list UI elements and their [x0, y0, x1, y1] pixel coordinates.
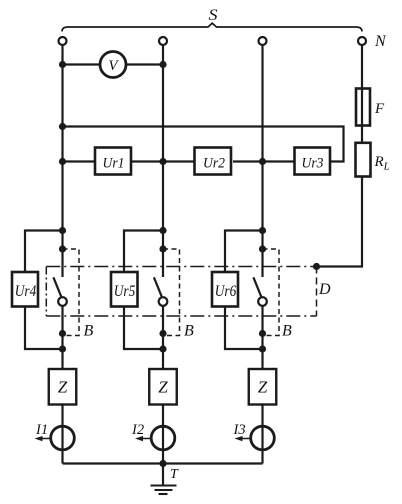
relay Ur6: [212, 272, 238, 307]
current source I2: [151, 426, 175, 450]
relay Ur4: [12, 272, 38, 307]
node L2-voltmeter: [159, 61, 166, 68]
node L1-voltmeter: [59, 61, 66, 68]
wire Ur1-Ur2: [132, 160, 196, 162]
arrow I1: [35, 436, 51, 441]
impedance Z1: [49, 369, 77, 405]
switch B1 blade: [53, 277, 61, 297]
wire Ur row: [63, 160, 96, 162]
linkage D right edge (dashed): [316, 267, 318, 317]
wire phase L3 vertical (terminal to switch): [261, 45, 263, 277]
svg-text:B: B: [84, 323, 94, 340]
node L3-Ur row: [259, 158, 266, 165]
switch B1 enclosure (dashed): [63, 249, 80, 336]
node L2-Ur row: [159, 158, 166, 165]
node L2 switch top: [159, 245, 166, 252]
relay Ur3: [295, 148, 331, 175]
svg-text:B: B: [282, 323, 292, 340]
earth lead: [162, 464, 164, 486]
resistor RL: [356, 143, 371, 177]
node L2 switch bottom: [159, 330, 166, 337]
node L1-Ur row: [59, 158, 66, 165]
svg-text:N: N: [374, 33, 387, 50]
wire Ur5 return to L2: [124, 307, 163, 350]
relay Ur2: [195, 148, 232, 175]
wire phase L3 vertical (switch to bottom bus): [261, 306, 263, 464]
current source I3: [251, 426, 275, 450]
svg-text:Ur1: Ur1: [103, 156, 125, 172]
arrow I3: [235, 436, 251, 441]
svg-text:Ur5: Ur5: [114, 283, 136, 300]
bottom bus wire: [63, 462, 263, 464]
svg-text:Z: Z: [258, 378, 268, 397]
wire Ur4 return to L1: [25, 307, 63, 350]
node L1 switch bottom: [59, 330, 66, 337]
node D (RL wire junction): [313, 263, 320, 270]
node L2 return: [159, 345, 166, 352]
terminal phase L2: [159, 37, 167, 45]
wire phase L1 vertical (terminal to switch): [61, 45, 63, 277]
terminal phase L1: [59, 37, 67, 45]
node L3 switch bottom: [259, 330, 266, 337]
svg-text:Z: Z: [158, 378, 168, 397]
svg-text:Ur2: Ur2: [203, 156, 225, 172]
switch B3 pivot: [258, 297, 267, 306]
svg-text:Ur6: Ur6: [215, 283, 237, 300]
wire RL to node D row: [317, 177, 363, 267]
arrow I2: [135, 436, 151, 441]
terminal phase L3: [259, 37, 267, 45]
wire L2 branch to Ur5: [124, 231, 163, 273]
svg-text:S: S: [209, 7, 218, 24]
node T (earth tap): [159, 460, 166, 467]
switch B3 enclosure (dashed): [263, 249, 280, 336]
node L3 switch top: [259, 245, 266, 252]
svg-text:Z: Z: [58, 378, 68, 397]
brace S (supply bracket): [62, 23, 362, 31]
wire L1 branch to Ur4: [25, 231, 63, 273]
wire L3 branch to Ur6: [225, 231, 263, 273]
linkage D left edge (dash-dot): [45, 267, 47, 317]
svg-text:Ur3: Ur3: [302, 156, 324, 172]
linkage D top rail (dash-dot): [46, 266, 316, 268]
impedance Z3: [249, 369, 277, 405]
switch B3 blade: [253, 277, 261, 297]
svg-text:I1: I1: [35, 422, 48, 438]
svg-text:Ur4: Ur4: [15, 283, 37, 300]
terminal N: [358, 37, 366, 45]
switch B2 pivot: [159, 297, 168, 306]
wire Ur2-Ur3: [233, 160, 295, 162]
impedance Z2: [149, 369, 177, 405]
voltmeter wire L1-L2: [63, 63, 164, 65]
switch B2 blade: [154, 277, 162, 297]
linkage D bottom rail (dash-dot): [46, 315, 316, 317]
wire phase L2 vertical (terminal to switch): [162, 45, 164, 277]
wire N vertical (terminal through fuse to RL): [361, 45, 363, 143]
wire phase L2 vertical (switch to bottom bus): [162, 306, 164, 464]
current source I1: [51, 426, 75, 450]
node L3 return: [259, 345, 266, 352]
svg-text:F: F: [374, 101, 385, 117]
svg-text:I2: I2: [131, 422, 144, 438]
wire phase L1 vertical (switch to bottom bus): [61, 306, 63, 464]
switch B2 enclosure (dashed): [163, 249, 180, 336]
svg-text:D: D: [318, 281, 331, 298]
node L1-bus: [59, 123, 66, 130]
svg-text:I3: I3: [233, 422, 246, 438]
node L3 branch top: [259, 227, 266, 234]
svg-text:B: B: [184, 323, 194, 340]
relay Ur5: [111, 272, 138, 307]
fuse F: [356, 89, 370, 126]
node L1 switch top: [59, 245, 66, 252]
wire Ur6 return to L3: [225, 307, 263, 350]
switch B1 pivot: [58, 297, 67, 306]
node L1 return: [59, 345, 66, 352]
node L1 branch top: [59, 227, 66, 234]
relay Ur1: [95, 148, 131, 175]
node L2 branch top: [159, 227, 166, 234]
ground: [151, 486, 177, 495]
voltmeter V: [100, 52, 126, 78]
svg-text:T: T: [170, 467, 179, 482]
bus wire L1 to Ur3 (top loop): [63, 127, 344, 162]
